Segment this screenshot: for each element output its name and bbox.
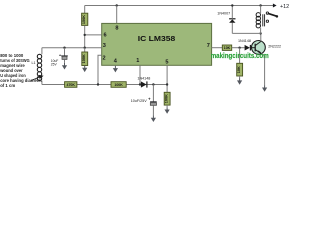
svg-text:3: 3	[103, 43, 106, 49]
resistor R3 470K (horizontal)	[65, 82, 77, 88]
resistor R5 100K (vertical to ground)	[164, 92, 170, 105]
node pin1 on bottom rail	[139, 83, 141, 85]
capacitor C2 10uF/25V	[152, 85, 154, 102]
wire pin3 line	[42, 47, 102, 49]
ground C1	[62, 63, 67, 70]
svg-text:25V: 25V	[51, 62, 58, 66]
svg-text:7: 7	[207, 43, 210, 49]
wire bottom rail	[42, 84, 167, 86]
supply arrowhead	[273, 4, 277, 8]
transistor Q1 2N2222	[252, 41, 266, 55]
node R7 junction	[238, 47, 240, 49]
svg-text:100K: 100K	[164, 94, 168, 103]
node pin6 junction	[84, 34, 86, 36]
resistor R1 150K (vertical)	[82, 13, 88, 25]
svg-text:10uF/25V: 10uF/25V	[131, 99, 148, 103]
inductor L1 sensor coil	[41, 48, 43, 55]
svg-text:1N4007: 1N4007	[217, 11, 230, 15]
relay switch contacts	[266, 12, 268, 14]
diode D1 1N4148 (horizontal)	[141, 81, 147, 87]
svg-text:IC LM358: IC LM358	[138, 34, 176, 43]
node D3 top	[231, 4, 233, 6]
wire pin8	[116, 6, 118, 24]
ground R5	[165, 107, 170, 114]
resistor R2 100K (vertical to ground)	[84, 48, 86, 52]
resistor R6 10K (horizontal)	[222, 45, 231, 50]
relay RL1 coil	[260, 6, 262, 14]
node relay top	[259, 4, 261, 6]
capacitor C1 10uF 25V	[64, 48, 66, 56]
ground R7	[237, 78, 242, 85]
svg-text:6: 6	[103, 32, 106, 38]
relay core lines	[263, 14, 265, 26]
ground pin4	[113, 66, 118, 73]
ground R2	[82, 66, 87, 73]
node pin5 on bottom rail	[166, 83, 168, 85]
wire pin2 stub	[98, 55, 102, 84]
wire flyback bottom	[232, 32, 260, 34]
svg-text:10K: 10K	[237, 66, 241, 73]
wire top supply rail	[85, 5, 274, 7]
wire pin6 line	[85, 34, 102, 36]
svg-text:of 1 cm: of 1 cm	[0, 83, 15, 88]
svg-text:2N2222: 2N2222	[268, 44, 281, 48]
wire from top rail down to R1	[84, 6, 86, 14]
ground C2	[151, 115, 156, 122]
svg-text:10K: 10K	[224, 46, 231, 50]
node collector / relay coil	[259, 32, 261, 34]
note arrow to coil	[31, 77, 40, 81]
svg-text:2: 2	[102, 55, 105, 61]
resistor R7 10K (vertical to ground)	[239, 48, 241, 64]
node R1/R2 junction on pin3 line	[84, 47, 86, 49]
wire pin5 drop	[166, 65, 168, 92]
op-amp IC LM358	[102, 23, 212, 65]
node pin2 on bottom rail	[97, 83, 99, 85]
svg-text:+12: +12	[280, 4, 289, 10]
svg-text:100K: 100K	[114, 83, 123, 87]
resistor R4 100K (horizontal)	[111, 82, 126, 88]
node junction top rail / pin8	[116, 4, 118, 6]
wire emitter down	[261, 54, 264, 86]
node C2 junction	[152, 83, 154, 85]
svg-text:8: 8	[115, 26, 118, 32]
svg-text:makingcircuits.com: makingcircuits.com	[211, 53, 269, 60]
wire pin1 drop	[139, 65, 141, 84]
svg-text:470K: 470K	[67, 83, 76, 87]
svg-text:+: +	[59, 52, 62, 57]
diode D2 1N4148 (horizontal)	[245, 45, 250, 51]
wire pin7 out	[212, 47, 223, 49]
wire R1 bottom to pin3 line	[84, 26, 86, 48]
svg-text:1: 1	[136, 58, 139, 64]
svg-text:5: 5	[165, 59, 168, 65]
wire R6 to D2	[232, 47, 245, 49]
svg-text:1N4148: 1N4148	[137, 76, 150, 80]
svg-text:100K: 100K	[82, 54, 86, 63]
svg-text:150K: 150K	[82, 15, 86, 24]
wire collector up	[260, 33, 262, 41]
diode D3 1N4007 (vertical flyback)	[231, 23, 233, 34]
svg-text:+: +	[148, 96, 151, 101]
svg-text:1N4148: 1N4148	[238, 39, 251, 43]
ground emitter	[262, 85, 267, 92]
node C1 junction on pin3 line	[63, 47, 65, 49]
svg-text:L1: L1	[32, 61, 36, 65]
note text block coil winding	[0, 53, 42, 88]
